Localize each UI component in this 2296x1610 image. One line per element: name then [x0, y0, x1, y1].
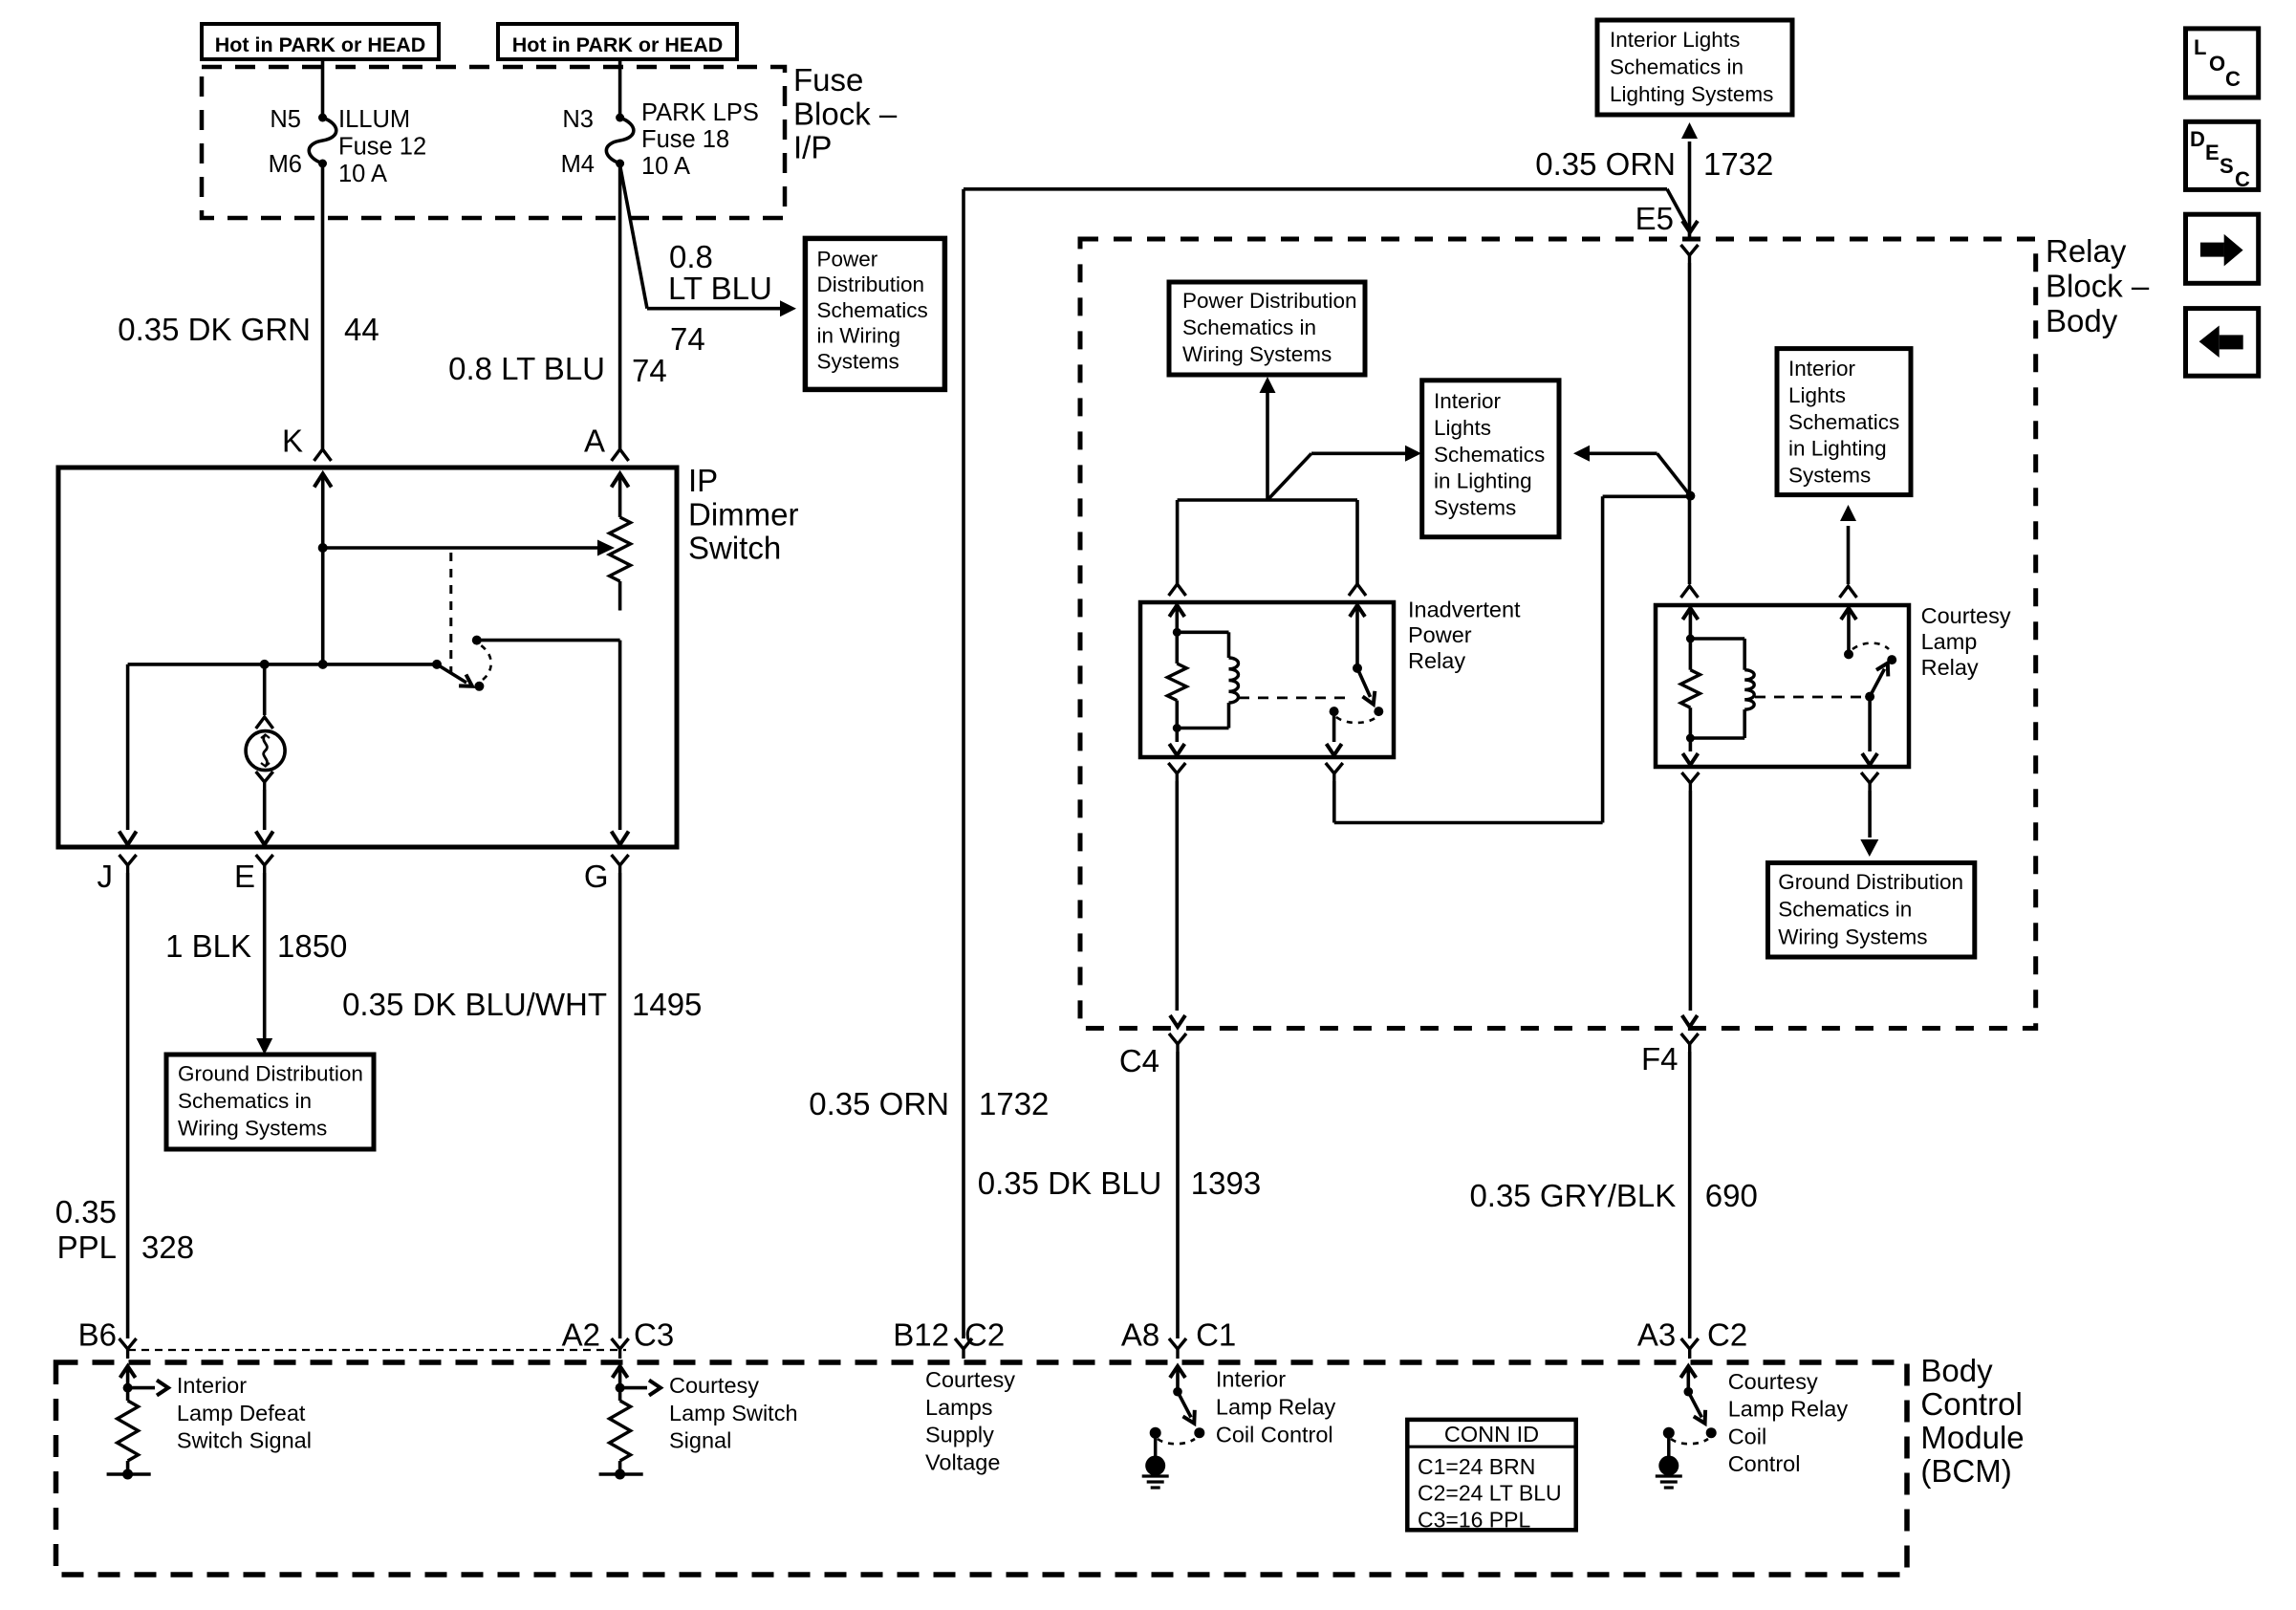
- svg-text:Relay: Relay: [2046, 233, 2127, 269]
- svg-text:1850: 1850: [277, 928, 347, 964]
- svg-text:in Lighting: in Lighting: [1788, 437, 1887, 461]
- svg-text:Module: Module: [1920, 1420, 2024, 1455]
- svg-text:Hot in PARK or HEAD: Hot in PARK or HEAD: [512, 33, 724, 56]
- svg-text:in Wiring: in Wiring: [817, 324, 901, 348]
- svg-text:Switch Signal: Switch Signal: [177, 1428, 312, 1453]
- svg-text:Lamp Relay: Lamp Relay: [1216, 1395, 1336, 1420]
- svg-text:690: 690: [1705, 1178, 1758, 1213]
- svg-text:Inadvertent: Inadvertent: [1408, 597, 1521, 621]
- svg-text:C: C: [2225, 67, 2241, 91]
- svg-text:Interior: Interior: [177, 1373, 247, 1398]
- BCM input A2/C3: courtesy lamp switch signal: [618, 1369, 622, 1388]
- ground (courtesy lamp relay coil): [1667, 1437, 1671, 1462]
- svg-text:Systems: Systems: [1788, 464, 1871, 488]
- fuse F12 ILLUM 10A: [318, 114, 327, 122]
- relay switch (courtesy): [1847, 609, 1851, 639]
- BCM boundary chevrons: [119, 1338, 137, 1349]
- wire 1850 BLK: E to ground ref: [263, 873, 267, 1039]
- svg-text:K: K: [282, 424, 303, 459]
- reference box: Interior Lights Schematics in Lighting Systems (middle): [1422, 381, 1559, 537]
- svg-text:1 BLK: 1 BLK: [165, 928, 251, 964]
- svg-text:1495: 1495: [632, 987, 702, 1022]
- svg-text:Schematics in: Schematics in: [1610, 55, 1744, 79]
- svg-text:Dimmer: Dimmer: [688, 496, 798, 532]
- Relay Block - Body dashed outline: [1080, 239, 2036, 1029]
- svg-text:74: 74: [632, 353, 667, 388]
- svg-text:Lights: Lights: [1788, 383, 1846, 407]
- reference box: Interior Lights Schematics in Lighting Systems (top): [1597, 20, 1792, 115]
- svg-text:10 A: 10 A: [641, 153, 690, 180]
- svg-text:Body: Body: [1920, 1353, 1993, 1388]
- svg-text:Ground Distribution: Ground Distribution: [178, 1062, 363, 1086]
- svg-text:0.35 DK GRN: 0.35 DK GRN: [118, 312, 311, 347]
- svg-text:C1: C1: [1196, 1317, 1236, 1353]
- chevrons below courtesy relay: [1681, 772, 1699, 783]
- svg-text:A2: A2: [562, 1317, 600, 1353]
- rheostat resistor element: [610, 517, 631, 581]
- svg-text:1393: 1393: [1191, 1165, 1261, 1201]
- reference box: Ground Distribution Schematics in Wiring Systems (left): [166, 1055, 374, 1149]
- svg-text:(BCM): (BCM): [1920, 1453, 2011, 1489]
- icon box right arrow: [2186, 214, 2259, 283]
- wire F4: relay to BCM A3: [1689, 791, 1693, 1011]
- svg-text:D: D: [2190, 127, 2205, 151]
- chevrons below inadvertent relay: [1168, 763, 1185, 773]
- svg-text:0.35 DK BLU/WHT: 0.35 DK BLU/WHT: [342, 987, 607, 1022]
- fuse F18 PARK LPS 10A: [616, 114, 624, 122]
- svg-text:Voltage: Voltage: [925, 1449, 1000, 1474]
- wire 1732 ORN: BCM B12 up and across to E5: [962, 189, 965, 1338]
- Courtesy Lamp Relay box: [1656, 605, 1909, 767]
- wire ORN inside relay block: [1688, 263, 1692, 584]
- svg-text:Control: Control: [1728, 1451, 1801, 1476]
- svg-text:0.35 GRY/BLK: 0.35 GRY/BLK: [1469, 1178, 1676, 1213]
- svg-text:C3: C3: [634, 1317, 674, 1353]
- wire 1495 DK BLU/WHT: G to BCM A2/C3: [618, 873, 622, 1338]
- CONN ID table: [1407, 1420, 1575, 1530]
- svg-text:Lamps: Lamps: [925, 1395, 993, 1420]
- ground bar (B6): [107, 1472, 151, 1476]
- wire ORN vertical to Interior Lights ref (top): [1688, 141, 1692, 239]
- svg-text:Systems: Systems: [817, 349, 899, 373]
- svg-text:C1=24 BRN: C1=24 BRN: [1418, 1454, 1535, 1479]
- svg-text:Power: Power: [817, 248, 878, 272]
- svg-text:0.35 DK BLU: 0.35 DK BLU: [978, 1165, 1162, 1201]
- svg-text:Schematics in: Schematics in: [1778, 898, 1912, 922]
- svg-text:N3: N3: [562, 106, 594, 133]
- wire 74 LT BLU: fuse to IP dimmer A: [618, 163, 622, 449]
- svg-text:74: 74: [670, 321, 705, 357]
- relay coil (inadvertent): [1176, 606, 1180, 632]
- svg-text:B12: B12: [893, 1317, 949, 1353]
- svg-text:Wiring Systems: Wiring Systems: [1182, 342, 1332, 366]
- svg-text:A8: A8: [1121, 1317, 1159, 1353]
- svg-text:Courtesy: Courtesy: [1728, 1369, 1818, 1394]
- svg-text:328: 328: [141, 1229, 194, 1265]
- relay feed tee: [1178, 498, 1357, 502]
- svg-text:Supply: Supply: [925, 1423, 994, 1447]
- diagonal to interior lights ref arrow: [1267, 453, 1311, 500]
- svg-text:0.35: 0.35: [55, 1194, 117, 1229]
- wire up to interior lights ref (right): [1847, 526, 1851, 584]
- dashed mechanical link: [449, 553, 452, 672]
- svg-text:Wiring Systems: Wiring Systems: [178, 1117, 327, 1141]
- Body Control Module dashed outline: [56, 1362, 1908, 1575]
- svg-text:Distribution: Distribution: [817, 272, 925, 296]
- reference box: Interior Lights Schematics in Lighting Systems (right): [1777, 349, 1911, 495]
- svg-text:Relay: Relay: [1921, 655, 1979, 680]
- svg-text:F4: F4: [1641, 1041, 1679, 1077]
- BCM input B6: interior lamp defeat switch signal: [126, 1369, 130, 1388]
- svg-text:Lighting Systems: Lighting Systems: [1610, 82, 1773, 106]
- lamp branch: [263, 664, 267, 715]
- svg-text:Relay: Relay: [1408, 648, 1465, 673]
- svg-text:Courtesy: Courtesy: [925, 1367, 1015, 1392]
- fuse block dashed outline: [202, 67, 785, 218]
- svg-text:Lamp Defeat: Lamp Defeat: [177, 1401, 306, 1425]
- internal bus wire: [128, 663, 437, 666]
- svg-text:C4: C4: [1119, 1043, 1159, 1078]
- relay coil suppression resistor (courtesy): [1680, 670, 1700, 708]
- svg-text:M4: M4: [561, 151, 595, 178]
- svg-text:Coil: Coil: [1728, 1424, 1766, 1448]
- connector dashed line (thin): [128, 1349, 626, 1351]
- svg-text:N5: N5: [270, 106, 301, 133]
- svg-text:A: A: [584, 424, 605, 459]
- icon box LOC: [2186, 29, 2259, 98]
- svg-text:Schematics in: Schematics in: [178, 1089, 312, 1113]
- svg-text:L: L: [2194, 35, 2206, 59]
- arrow up into power dist box: [1266, 392, 1269, 500]
- relay coil suppression resistor (inadvertent): [1167, 664, 1186, 701]
- node E5 chevron below border: [1681, 245, 1699, 255]
- svg-text:Systems: Systems: [1434, 496, 1516, 520]
- svg-text:1732: 1732: [979, 1086, 1049, 1121]
- svg-text:O: O: [2209, 52, 2225, 76]
- svg-text:A3: A3: [1637, 1317, 1676, 1353]
- wire from right Hot box to fuse PARK LPS: [618, 59, 622, 118]
- wire C4: relay to BCM A8: [1176, 781, 1180, 1011]
- BCM output A8: interior lamp relay coil control: [1176, 1369, 1180, 1392]
- reference box: Ground Distribution Schematics in Wiring Systems (right): [1768, 863, 1975, 958]
- svg-text:PARK LPS: PARK LPS: [641, 99, 759, 126]
- icon box left arrow: [2186, 309, 2259, 377]
- svg-text:S: S: [2220, 154, 2234, 178]
- svg-text:0.35 ORN: 0.35 ORN: [809, 1086, 949, 1121]
- wire to ground distribution ref: [1868, 791, 1872, 838]
- illumination lamp: [246, 731, 285, 771]
- svg-text:C2: C2: [1707, 1317, 1747, 1353]
- svg-text:Power Distribution: Power Distribution: [1182, 289, 1357, 313]
- svg-text:Control: Control: [1920, 1386, 2022, 1422]
- svg-text:Lamp: Lamp: [1921, 629, 1978, 654]
- wire J inside dimmer: [126, 664, 130, 830]
- svg-text:Interior: Interior: [1788, 357, 1856, 381]
- svg-text:PPL: PPL: [57, 1229, 117, 1265]
- svg-text:Interior: Interior: [1216, 1367, 1286, 1392]
- svg-text:C: C: [2235, 167, 2250, 191]
- power label box: Hot in PARK or HEAD (left): [202, 24, 439, 59]
- chevrons above inadvertent relay: [1169, 584, 1186, 596]
- svg-text:Lamp Relay: Lamp Relay: [1728, 1397, 1849, 1422]
- power label box: Hot in PARK or HEAD (right): [498, 24, 737, 59]
- svg-text:C2=24 LT BLU: C2=24 LT BLU: [1418, 1481, 1562, 1506]
- reference box: Power Distribution Schematics in Wiring Systems (relay area): [1169, 282, 1365, 375]
- svg-text:Schematics: Schematics: [1434, 443, 1545, 467]
- wire K inside dimmer: [321, 475, 325, 548]
- relay coil (courtesy): [1689, 609, 1693, 639]
- BCM output A3: courtesy lamp relay coil control: [1687, 1369, 1691, 1392]
- svg-text:0.8 LT BLU: 0.8 LT BLU: [448, 351, 605, 386]
- wire from courtesy NC loop to junction: [1603, 494, 1691, 498]
- svg-text:Hot in PARK or HEAD: Hot in PARK or HEAD: [215, 33, 426, 56]
- svg-text:LT BLU: LT BLU: [668, 271, 772, 306]
- svg-text:Switch: Switch: [688, 531, 781, 566]
- Inadvertent Power Relay box: [1140, 602, 1394, 757]
- svg-text:Interior Lights: Interior Lights: [1610, 28, 1740, 52]
- svg-text:Lamp Switch: Lamp Switch: [669, 1401, 798, 1425]
- svg-text:44: 44: [344, 312, 379, 347]
- svg-text:Fuse 18: Fuse 18: [641, 126, 729, 153]
- ground bar (A2): [599, 1472, 643, 1476]
- svg-text:Power: Power: [1408, 622, 1472, 647]
- resistor: lamp defeat switch signal: [118, 1401, 139, 1461]
- dashed travel arc: [481, 645, 491, 680]
- svg-text:Block –: Block –: [2046, 268, 2150, 303]
- svg-text:CONN ID: CONN ID: [1444, 1422, 1539, 1447]
- svg-text:Signal: Signal: [669, 1428, 731, 1453]
- branch wire from M4 to power distribution reference: [620, 165, 647, 309]
- svg-text:Interior: Interior: [1434, 389, 1502, 413]
- ground (interior lamp relay coil): [1154, 1437, 1158, 1462]
- relay linkage dashed: [1239, 697, 1348, 700]
- svg-text:IP: IP: [688, 463, 718, 498]
- svg-text:10 A: 10 A: [338, 161, 387, 187]
- relay linkage dashed (courtesy): [1755, 696, 1861, 699]
- svg-text:1732: 1732: [1703, 146, 1773, 182]
- wire 44 DK GRN: fuse to IP dimmer K: [321, 163, 325, 449]
- relay switch (inadvertent): [1355, 606, 1359, 668]
- svg-text:J: J: [97, 859, 114, 894]
- svg-text:Ground Distribution: Ground Distribution: [1778, 870, 1963, 894]
- svg-text:E: E: [2205, 141, 2220, 164]
- svg-text:Schematics in: Schematics in: [1182, 315, 1316, 339]
- svg-text:C3=16 PPL: C3=16 PPL: [1418, 1507, 1530, 1532]
- svg-text:E: E: [234, 859, 255, 894]
- svg-text:Wiring Systems: Wiring Systems: [1778, 925, 1927, 948]
- wiper arrow to rheostat: [323, 546, 598, 550]
- svg-text:0.8: 0.8: [669, 239, 713, 274]
- svg-text:Courtesy: Courtesy: [1921, 603, 2011, 628]
- svg-text:Fuse 12: Fuse 12: [338, 134, 426, 161]
- svg-text:Schematics: Schematics: [1788, 410, 1899, 434]
- svg-text:Schematics: Schematics: [817, 298, 928, 322]
- wire from left Hot box to fuse ILLUM: [321, 59, 325, 118]
- svg-text:G: G: [584, 859, 609, 894]
- arrow from right into interior lights ref: [1573, 446, 1590, 462]
- icon box DESC: [2186, 121, 2259, 189]
- svg-text:M6: M6: [269, 151, 302, 178]
- svg-text:Body: Body: [2046, 303, 2118, 338]
- switch pivot and blade: [432, 660, 442, 669]
- svg-text:B6: B6: [78, 1317, 117, 1353]
- svg-text:Block –: Block –: [793, 96, 898, 131]
- svg-text:Coil Control: Coil Control: [1216, 1422, 1333, 1447]
- svg-text:Fuse: Fuse: [793, 62, 863, 98]
- switch contact to G: [472, 636, 482, 645]
- svg-text:in Lighting: in Lighting: [1434, 469, 1532, 493]
- reference box: Power Distribution Schematics in Wiring Systems (fuse area): [805, 238, 944, 389]
- wire A inside dimmer: [618, 475, 622, 517]
- svg-text:0.35 ORN: 0.35 ORN: [1535, 146, 1676, 182]
- svg-text:C2: C2: [964, 1317, 1005, 1353]
- svg-text:E5: E5: [1635, 201, 1674, 236]
- chevrons above courtesy relay: [1681, 586, 1699, 598]
- svg-text:Courtesy: Courtesy: [669, 1373, 759, 1398]
- wire 328 PPL: J to BCM B6: [126, 873, 130, 1338]
- resistor: courtesy lamp switch signal: [610, 1401, 631, 1461]
- IP Dimmer Switch box: [58, 468, 677, 847]
- svg-text:Lights: Lights: [1434, 416, 1491, 440]
- svg-text:I/P: I/P: [793, 130, 832, 165]
- svg-text:ILLUM: ILLUM: [338, 106, 410, 133]
